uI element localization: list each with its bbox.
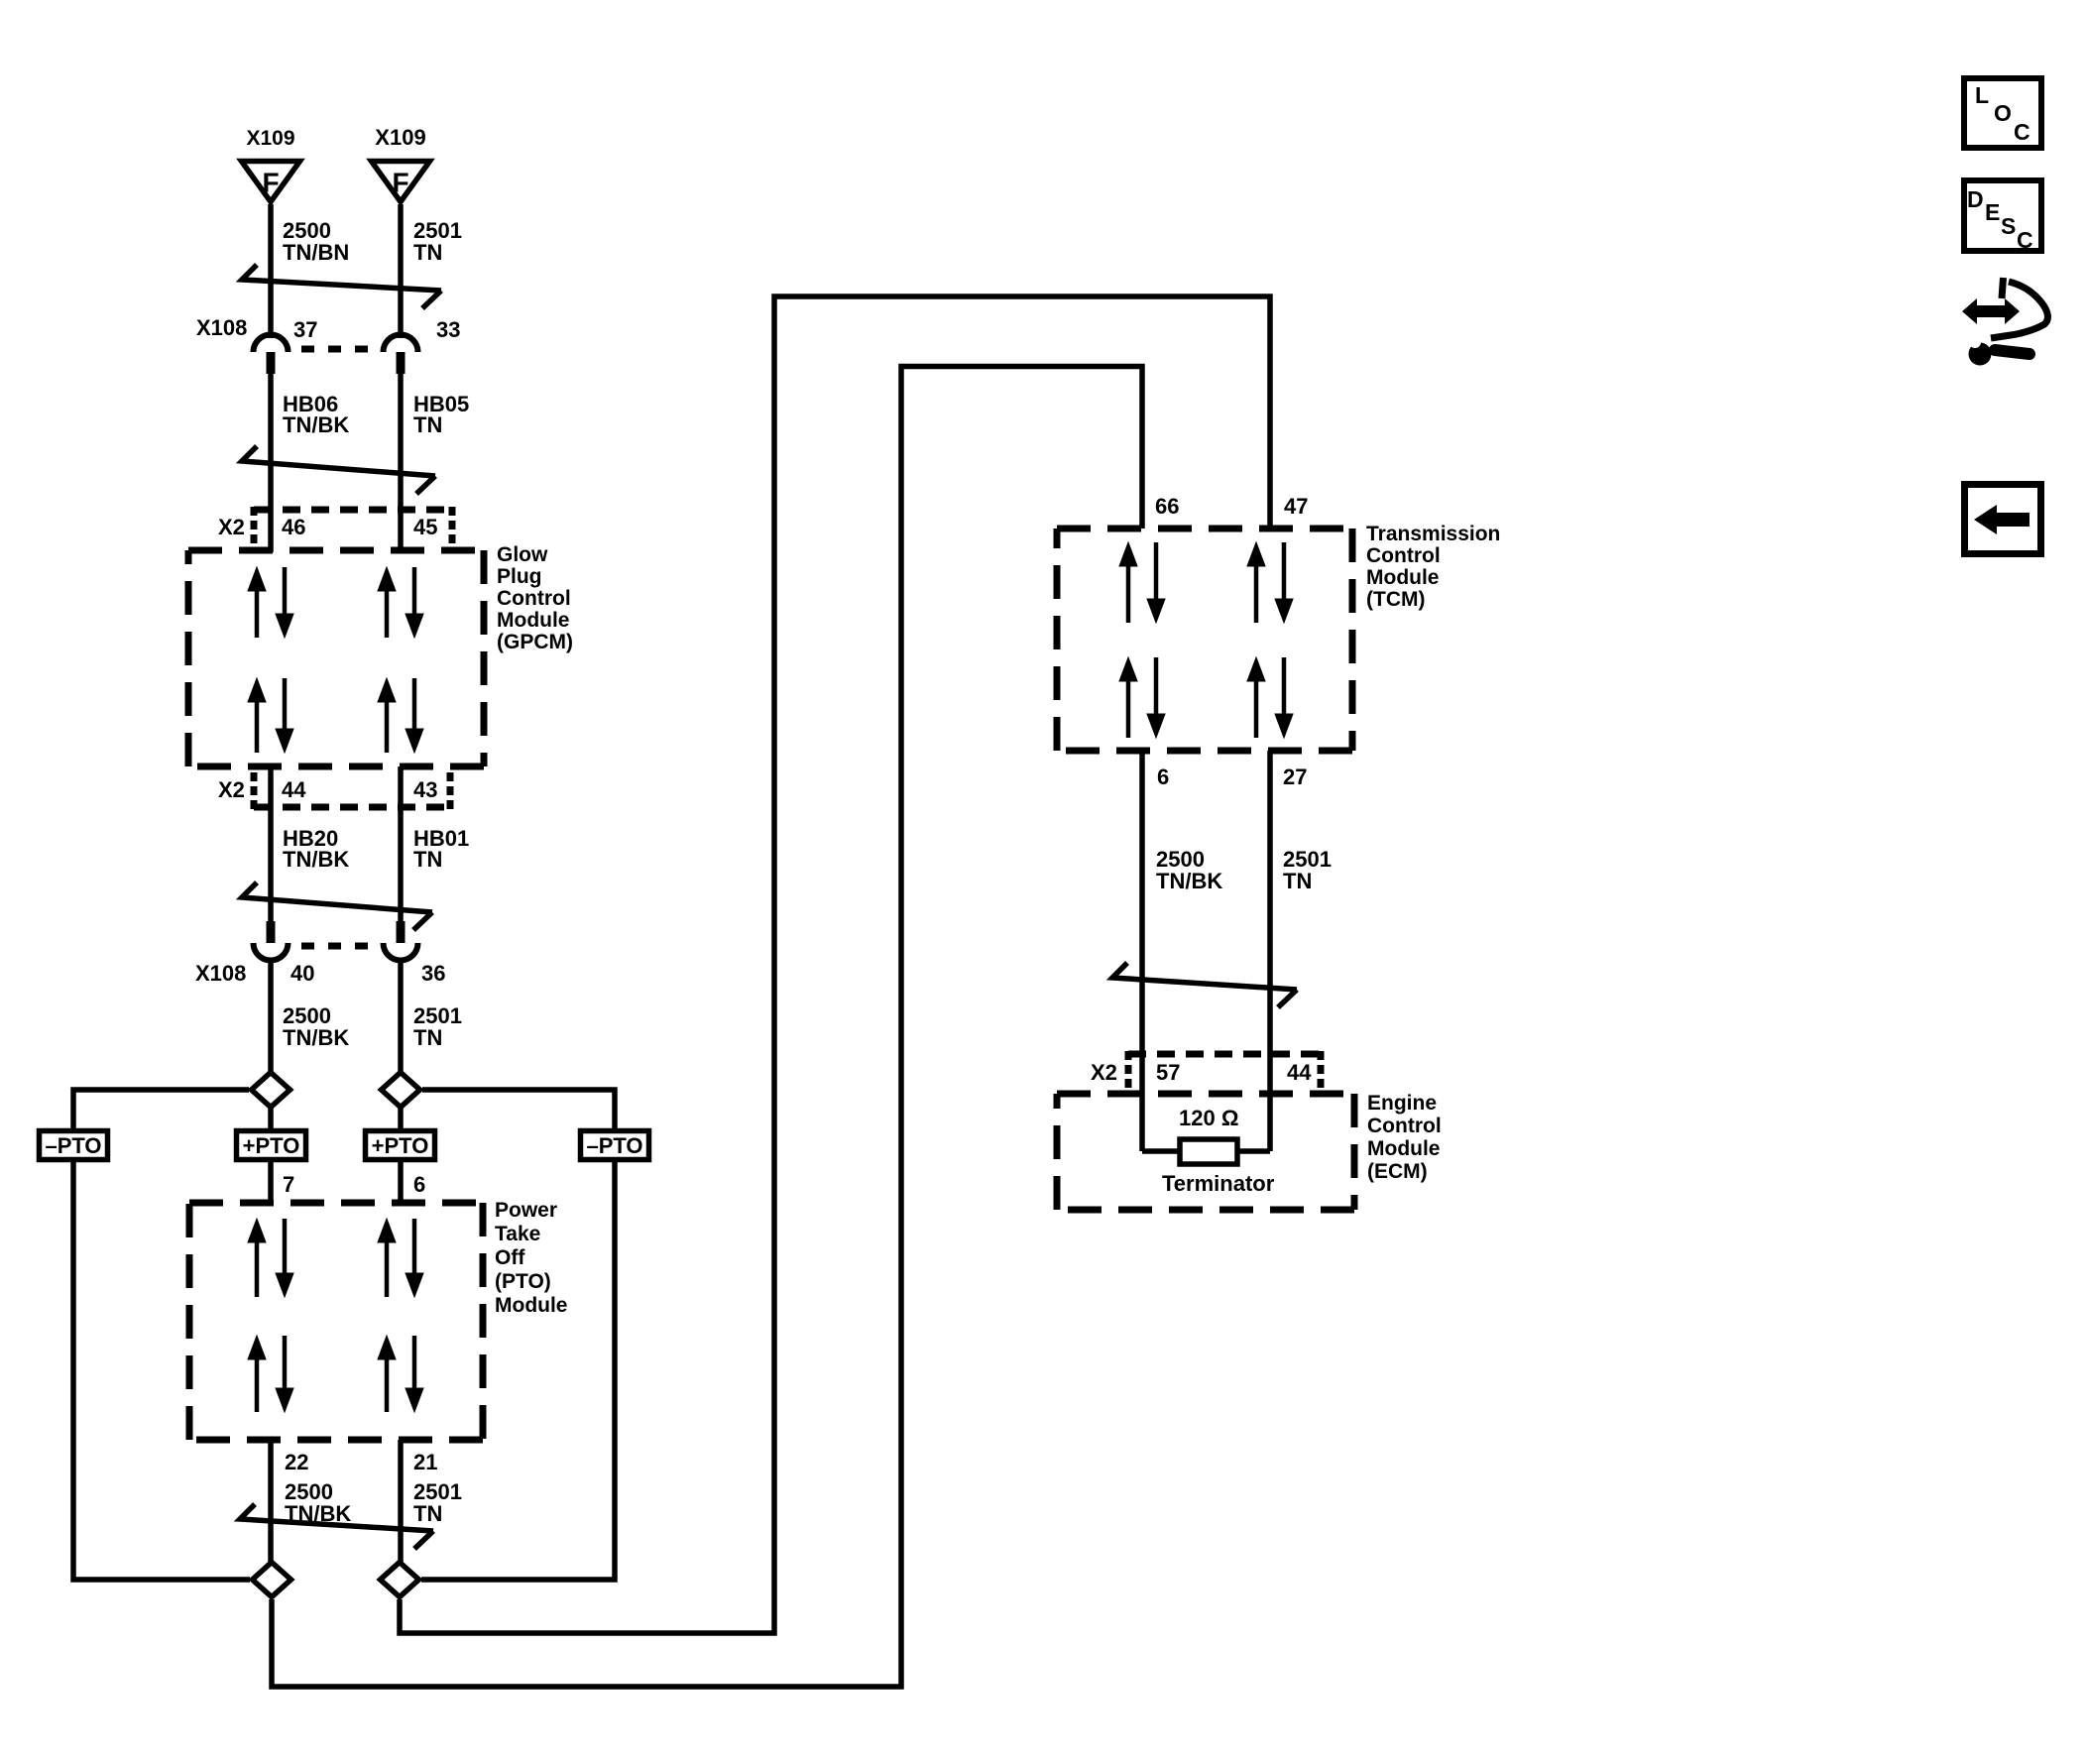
svg-text:X2: X2 <box>1091 1060 1117 1085</box>
svg-text:Power: Power <box>495 1199 557 1222</box>
svg-text:–PTO: –PTO <box>586 1133 642 1158</box>
svg-text:36: 36 <box>421 961 445 986</box>
svg-text:–PTO: –PTO <box>45 1133 101 1158</box>
svg-text:C: C <box>2014 119 2030 145</box>
svg-text:TN/BK: TN/BK <box>1156 869 1222 893</box>
svg-text:Off: Off <box>495 1246 525 1269</box>
svg-text:27: 27 <box>1283 764 1307 789</box>
svg-text:X108: X108 <box>196 315 247 340</box>
svg-text:21: 21 <box>413 1450 437 1474</box>
svg-text:6: 6 <box>413 1172 425 1197</box>
svg-text:Transmission: Transmission <box>1366 523 1500 545</box>
svg-text:TN: TN <box>1283 869 1312 893</box>
svg-text:X109: X109 <box>246 127 294 150</box>
svg-text:TN/BK: TN/BK <box>283 412 349 437</box>
svg-text:F: F <box>392 168 408 198</box>
svg-text:44: 44 <box>282 777 306 802</box>
svg-text:Glow: Glow <box>497 543 548 566</box>
svg-text:Module: Module <box>1367 1137 1441 1160</box>
svg-text:6: 6 <box>1157 764 1169 789</box>
svg-text:TN: TN <box>413 1025 442 1050</box>
svg-text:45: 45 <box>413 515 437 539</box>
svg-text:47: 47 <box>1284 494 1308 519</box>
svg-text:+PTO: +PTO <box>243 1133 300 1158</box>
svg-text:X108: X108 <box>195 961 246 986</box>
svg-text:TN: TN <box>413 412 442 437</box>
svg-text:L: L <box>1975 82 1989 108</box>
svg-text:Plug: Plug <box>497 565 542 588</box>
svg-text:C: C <box>2017 227 2033 253</box>
svg-text:Terminator: Terminator <box>1162 1171 1275 1196</box>
svg-text:Module: Module <box>495 1294 568 1317</box>
svg-text:120 Ω: 120 Ω <box>1179 1106 1238 1130</box>
svg-text:43: 43 <box>413 777 437 802</box>
svg-text:TN: TN <box>413 847 442 872</box>
svg-text:7: 7 <box>283 1172 294 1197</box>
svg-text:44: 44 <box>1287 1060 1312 1085</box>
svg-text:33: 33 <box>436 317 460 342</box>
svg-text:Control: Control <box>497 587 571 610</box>
svg-text:O: O <box>1994 100 2012 126</box>
svg-text:(GPCM): (GPCM) <box>497 631 573 653</box>
svg-text:Module: Module <box>1366 566 1440 589</box>
svg-text:46: 46 <box>282 515 305 539</box>
svg-text:Module: Module <box>497 609 570 632</box>
svg-text:X2: X2 <box>218 515 245 539</box>
svg-text:+PTO: +PTO <box>372 1133 429 1158</box>
svg-text:TN: TN <box>413 1501 442 1526</box>
svg-text:X109: X109 <box>375 125 425 150</box>
svg-text:D: D <box>1967 186 1984 212</box>
svg-text:TN: TN <box>413 240 442 265</box>
svg-text:Control: Control <box>1367 1115 1442 1137</box>
svg-text:TN/BK: TN/BK <box>283 1025 349 1050</box>
svg-text:TN/BK: TN/BK <box>283 847 349 872</box>
svg-text:S: S <box>2001 213 2016 239</box>
svg-text:66: 66 <box>1155 494 1179 519</box>
svg-text:X2: X2 <box>218 777 245 802</box>
svg-text:TN/BK: TN/BK <box>285 1501 351 1526</box>
svg-text:(ECM): (ECM) <box>1367 1160 1428 1183</box>
svg-text:40: 40 <box>290 961 314 986</box>
svg-text:(PTO): (PTO) <box>495 1270 551 1293</box>
svg-text:37: 37 <box>293 317 317 342</box>
svg-text:Control: Control <box>1366 544 1441 567</box>
svg-text:Take: Take <box>495 1223 540 1245</box>
svg-text:E: E <box>1985 199 2000 225</box>
svg-text:(TCM): (TCM) <box>1366 588 1425 611</box>
svg-text:Engine: Engine <box>1367 1092 1437 1115</box>
svg-text:57: 57 <box>1156 1060 1180 1085</box>
svg-text:22: 22 <box>285 1450 308 1474</box>
svg-text:TN/BN: TN/BN <box>283 240 349 265</box>
svg-text:F: F <box>262 168 279 198</box>
